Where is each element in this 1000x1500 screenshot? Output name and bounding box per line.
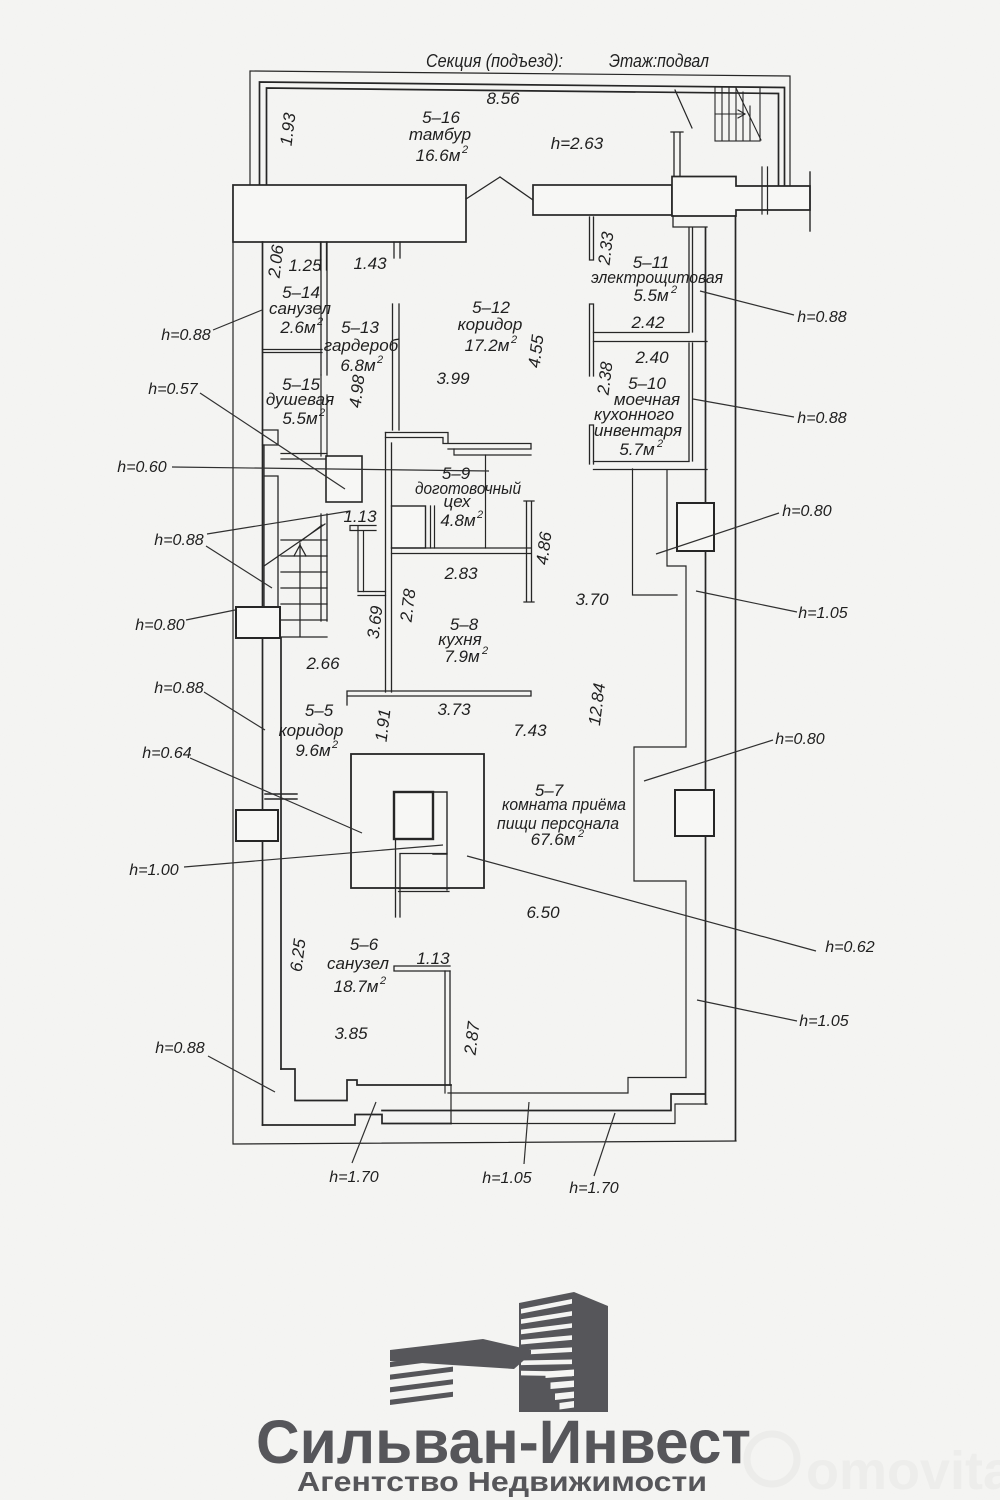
svg-text:2: 2 xyxy=(656,438,663,450)
wall segment below dushevaya xyxy=(321,375,327,456)
leader h=0.80 right1 xyxy=(656,513,779,554)
svg-text:17.2м: 17.2м xyxy=(465,336,510,355)
5-9 inner partition xyxy=(431,506,435,548)
svg-text:6.25: 6.25 xyxy=(287,937,310,973)
svg-text:2: 2 xyxy=(476,509,483,521)
door swing arc душевая xyxy=(301,525,322,541)
svg-text:5–6: 5–6 xyxy=(350,935,379,954)
left main wall inner line xyxy=(262,242,264,1125)
leader h=0.88 left3 xyxy=(204,692,265,730)
shaft block big rectangle 5-6 top xyxy=(351,754,484,888)
shaft side wall right xyxy=(400,854,447,891)
svg-text:коридор: коридор xyxy=(279,721,344,740)
svg-text:4.8м: 4.8м xyxy=(440,511,476,530)
leader h=0.57 xyxy=(200,393,345,489)
kitchen bottom wall xyxy=(347,691,531,705)
double door leaves of tambour xyxy=(466,177,533,200)
pilaster box on left wall h=0.80 xyxy=(236,607,280,638)
wall between tambour and staircase xyxy=(671,132,683,176)
svg-text:2: 2 xyxy=(481,645,488,657)
svg-text:h=0.80: h=0.80 xyxy=(775,731,824,748)
leader h=0.88 left1 xyxy=(213,310,262,330)
svg-text:2: 2 xyxy=(461,144,468,156)
svg-text:h=0.57: h=0.57 xyxy=(148,381,198,398)
5-11 right wall xyxy=(689,228,693,332)
logo tower front face striped xyxy=(519,1292,574,1412)
svg-text:h=1.70: h=1.70 xyxy=(569,1180,618,1197)
staircase top flight xyxy=(715,87,761,141)
5-11 left wall upper bracket xyxy=(590,217,594,260)
5-9 block wall lower edge xyxy=(454,449,531,455)
svg-text:6.50: 6.50 xyxy=(526,903,560,922)
leader h=0.88 right2 xyxy=(693,399,794,417)
svg-text:7.9м: 7.9м xyxy=(444,647,480,666)
svg-text:16.6м: 16.6м xyxy=(416,146,461,165)
door jamb stub 1.25 xyxy=(321,242,327,270)
shaft lower stem wall xyxy=(396,839,401,917)
svg-text:h=0.62: h=0.62 xyxy=(825,939,874,956)
svg-text:2: 2 xyxy=(670,284,677,296)
wall stub in corridor xyxy=(265,794,297,799)
svg-text:2: 2 xyxy=(331,739,338,751)
leader h=0.88 bottom left xyxy=(208,1056,275,1092)
svg-text:2: 2 xyxy=(379,975,386,987)
shaft inner thick box xyxy=(394,792,433,839)
wall connector kitchen left xyxy=(358,592,386,596)
wall stub 1.13 upper xyxy=(350,526,376,531)
wall right of garderob 5-13 xyxy=(393,304,400,430)
svg-text:комната приёма: комната приёма xyxy=(502,795,626,814)
svg-text:Этаж:подвал: Этаж:подвал xyxy=(609,51,709,71)
wall between 5-11 and 5-10 xyxy=(594,333,708,342)
corridor 5-5 left wall xyxy=(280,638,282,1069)
svg-text:h=2.63: h=2.63 xyxy=(551,134,604,153)
svg-text:1.43: 1.43 xyxy=(353,254,387,273)
svg-text:7.43: 7.43 xyxy=(513,721,547,740)
tambour top wall double line xyxy=(260,82,785,185)
svg-text:1.13: 1.13 xyxy=(416,949,450,968)
svg-text:h=0.60: h=0.60 xyxy=(117,459,166,476)
svg-text:2.42: 2.42 xyxy=(630,313,665,332)
stairs lower flight xyxy=(264,514,327,637)
corridor 5-5 bottom step contour xyxy=(281,1069,451,1101)
leader h=0.88 left2 upper xyxy=(207,511,350,534)
svg-text:1.13: 1.13 xyxy=(343,507,377,526)
tambour bottom wall middle band xyxy=(533,185,672,215)
svg-text:h=0.88: h=0.88 xyxy=(797,309,846,326)
outer thin boundary left/bottom xyxy=(233,185,736,1144)
svg-text:цех: цех xyxy=(444,492,471,511)
svg-text:4.86: 4.86 xyxy=(533,530,556,566)
svg-text:2.6м: 2.6м xyxy=(279,318,316,337)
5-6 right wall xyxy=(445,971,450,1085)
svg-text:5.7м: 5.7м xyxy=(619,440,655,459)
leader h=0.88 left2 lower xyxy=(206,546,272,588)
shaft box right of stairs top xyxy=(326,456,362,502)
svg-text:2: 2 xyxy=(577,828,584,840)
kitchen top wall xyxy=(392,548,532,554)
wall end cap right xyxy=(809,172,811,231)
svg-text:инвентаря: инвентаря xyxy=(594,421,682,440)
svg-text:2: 2 xyxy=(376,354,383,366)
free wall 4.86 xyxy=(524,501,534,602)
logo left slab roof wedge xyxy=(390,1339,531,1369)
wall left of kitchen vertical xyxy=(358,526,364,592)
leader h=1.05 right1 xyxy=(696,591,797,612)
right main wall outer line xyxy=(735,216,737,1141)
watermark circle bottom right xyxy=(747,1434,797,1484)
leader h=1.05 bottom xyxy=(524,1102,529,1164)
5-9 block top wall xyxy=(386,433,532,450)
shaft inner thin box xyxy=(433,792,447,854)
svg-text:2.40: 2.40 xyxy=(634,348,669,367)
svg-text:3.85: 3.85 xyxy=(334,1024,368,1043)
svg-text:1.93: 1.93 xyxy=(277,111,300,147)
wall between 5-14 and 5-15 xyxy=(263,350,323,353)
5-9 right thin wall xyxy=(485,455,487,548)
right strip zigzag upper xyxy=(633,469,687,1078)
pilaster box on left wall h=1.00 area xyxy=(236,810,278,841)
leader h=0.80 left xyxy=(186,610,235,620)
5-11 left wall lower bracket xyxy=(590,304,594,376)
svg-text:4.55: 4.55 xyxy=(525,333,548,369)
wall between garderob and 5-9 vertical xyxy=(386,433,392,693)
svg-text:3.73: 3.73 xyxy=(437,700,471,719)
svg-text:omovita: omovita xyxy=(806,1441,1000,1500)
wall right of sanuzel 5-14 xyxy=(321,242,327,375)
wall bump left at stairs top xyxy=(263,430,279,445)
svg-text:h=0.88: h=0.88 xyxy=(161,327,210,344)
leader h=1.00 xyxy=(184,845,443,867)
door leaf to staircase xyxy=(675,90,692,128)
door jamb below staircase xyxy=(762,167,768,214)
5-10 left wall bracket xyxy=(590,425,594,464)
svg-text:3.99: 3.99 xyxy=(436,369,470,388)
svg-text:h=1.05: h=1.05 xyxy=(799,1013,848,1030)
svg-text:h=0.88: h=0.88 xyxy=(797,410,846,427)
leader h=0.64 xyxy=(190,758,362,833)
leader h=0.62 xyxy=(467,856,816,951)
svg-text:4.98: 4.98 xyxy=(346,373,369,409)
outer thin boundary top section xyxy=(250,71,790,186)
door jamb stub 1.43 right xyxy=(394,242,400,258)
svg-text:5.5м: 5.5м xyxy=(633,286,669,305)
wall segment left of stairs xyxy=(264,445,278,607)
column on right wall lower xyxy=(675,790,714,836)
svg-text:h=0.80: h=0.80 xyxy=(135,617,184,634)
svg-text:h=1.05: h=1.05 xyxy=(798,605,847,622)
svg-text:санузел: санузел xyxy=(327,954,389,973)
5-10 right wall xyxy=(689,343,693,461)
svg-text:h=0.88: h=0.88 xyxy=(154,532,203,549)
tambour bottom thick wall left (band) xyxy=(233,185,466,242)
svg-text:тамбур: тамбур xyxy=(409,125,471,144)
leader h=0.80 right2 xyxy=(644,740,773,781)
5-6 right wall lower xyxy=(445,1085,451,1124)
svg-text:1.91: 1.91 xyxy=(372,708,395,743)
5-10 bottom wall xyxy=(594,462,708,470)
svg-text:6.8м: 6.8м xyxy=(340,356,376,375)
dushevaya bottom wall xyxy=(281,454,327,460)
svg-text:h=0.80: h=0.80 xyxy=(782,503,831,520)
leader h=0.88 right1 xyxy=(700,291,794,315)
svg-text:Секция (подъезд):: Секция (подъезд): xyxy=(426,51,563,71)
svg-text:3.70: 3.70 xyxy=(575,590,609,609)
leader h=1.70 bottom2 xyxy=(594,1113,615,1176)
svg-text:h=1.70: h=1.70 xyxy=(329,1169,378,1186)
svg-text:5–13: 5–13 xyxy=(341,318,379,337)
wall below shaft horizontal xyxy=(399,889,450,892)
svg-text:h=1.00: h=1.00 xyxy=(129,862,178,879)
svg-text:8.56: 8.56 xyxy=(486,89,520,108)
svg-text:3.69: 3.69 xyxy=(364,604,387,640)
logo tower right dark face xyxy=(574,1292,608,1412)
wall 1.13 of 5-6 xyxy=(394,966,450,971)
svg-text:2.83: 2.83 xyxy=(443,564,478,583)
svg-text:9.6м: 9.6м xyxy=(295,741,331,760)
appliance box left in 5-9 xyxy=(392,506,426,548)
svg-text:67.6м: 67.6м xyxy=(531,830,576,849)
bottom main wall inner line xyxy=(263,1115,452,1126)
leader h=1.05 right2 xyxy=(697,1000,797,1021)
tambour bottom wall right stepped band xyxy=(672,177,810,217)
svg-text:h=0.88: h=0.88 xyxy=(155,1040,204,1057)
column on right wall upper xyxy=(677,503,714,551)
svg-text:18.7м: 18.7м xyxy=(334,977,379,996)
svg-text:гардероб: гардероб xyxy=(324,336,400,355)
logo left slab stripes xyxy=(390,1354,453,1367)
svg-text:5.5м: 5.5м xyxy=(282,409,318,428)
svg-text:2: 2 xyxy=(510,334,517,346)
svg-text:2.66: 2.66 xyxy=(305,654,340,673)
svg-text:5–5: 5–5 xyxy=(305,701,334,720)
leader h=1.70 bottom1 xyxy=(352,1102,376,1163)
svg-text:электрощитовая: электрощитовая xyxy=(591,268,723,287)
bottom wall lower contour right xyxy=(451,1104,707,1124)
5-7 bottom inner contour xyxy=(448,1078,686,1094)
svg-text:1.25: 1.25 xyxy=(288,256,322,275)
svg-text:h=0.88: h=0.88 xyxy=(154,680,203,697)
svg-text:коридор: коридор xyxy=(458,315,523,334)
svg-text:h=0.64: h=0.64 xyxy=(142,745,191,762)
right main wall inner line xyxy=(382,228,706,1111)
svg-text:2: 2 xyxy=(316,316,323,328)
svg-text:h=1.05: h=1.05 xyxy=(482,1170,531,1187)
leader h=0.60 xyxy=(172,467,489,471)
5-11 electroshield top step xyxy=(673,216,707,227)
svg-text:2: 2 xyxy=(318,407,325,419)
svg-text:Агентство Недвижимости: Агентство Недвижимости xyxy=(297,1466,707,1497)
